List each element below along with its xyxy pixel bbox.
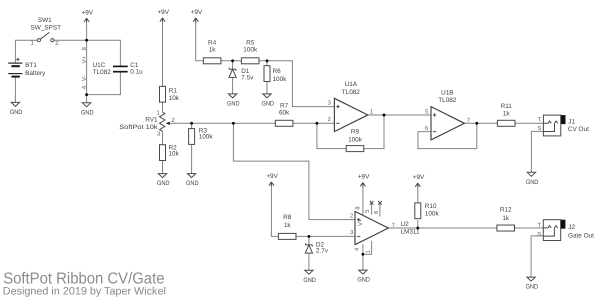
svg-text:GND: GND [303, 277, 316, 284]
svg-text:100k: 100k [273, 76, 288, 83]
svg-text:100k: 100k [199, 134, 214, 141]
svg-text:+9V: +9V [191, 9, 203, 16]
svg-text:R10: R10 [425, 203, 437, 210]
svg-text:J2: J2 [568, 224, 575, 231]
svg-text:R8: R8 [283, 214, 292, 221]
svg-text:+9V: +9V [157, 9, 169, 16]
svg-text:S: S [537, 231, 541, 238]
svg-text:RV1: RV1 [145, 116, 158, 123]
svg-text:CV Out: CV Out [568, 126, 589, 133]
svg-text:R9: R9 [351, 129, 360, 136]
svg-text:J1: J1 [568, 119, 575, 126]
svg-text:V+: V+ [357, 218, 364, 226]
svg-text:TL082: TL082 [93, 69, 112, 76]
svg-text:TL082: TL082 [438, 97, 457, 104]
svg-text:+9V: +9V [82, 9, 94, 16]
svg-text:0.1u: 0.1u [130, 68, 143, 75]
svg-text:GND: GND [157, 180, 170, 187]
svg-text:R11: R11 [501, 103, 513, 110]
svg-text:1k: 1k [502, 215, 510, 222]
svg-text:U1A: U1A [345, 81, 358, 88]
svg-text:10k: 10k [169, 95, 180, 102]
svg-text:T: T [537, 222, 541, 229]
svg-text:GND: GND [10, 109, 23, 116]
svg-text:Battery: Battery [25, 70, 46, 77]
svg-text:60k: 60k [279, 110, 290, 117]
svg-text:Gate Out: Gate Out [568, 232, 594, 239]
svg-text:GND: GND [526, 179, 539, 186]
svg-text:TL082: TL082 [342, 89, 361, 96]
svg-text:1k: 1k [209, 47, 217, 54]
svg-text:GND: GND [186, 180, 199, 187]
svg-text:GND: GND [526, 284, 539, 291]
svg-text:U1B: U1B [441, 90, 453, 97]
svg-text:+9V: +9V [413, 174, 425, 181]
svg-text:Designed in 2019 by Taper Wick: Designed in 2019 by Taper Wickel [3, 286, 166, 298]
svg-text:U2: U2 [401, 221, 410, 228]
svg-text:T: T [538, 117, 542, 124]
svg-text:+9V: +9V [266, 173, 278, 180]
svg-text:R4: R4 [208, 40, 217, 47]
svg-text:R5: R5 [246, 40, 255, 47]
svg-text:+9V: +9V [358, 174, 370, 181]
svg-text:10k: 10k [169, 151, 180, 158]
svg-text:1k: 1k [503, 110, 511, 117]
svg-text:R6: R6 [273, 68, 282, 75]
svg-text:SoftPot 10k: SoftPot 10k [119, 124, 158, 131]
svg-text:1k: 1k [284, 222, 292, 229]
svg-text:2.7v: 2.7v [316, 248, 329, 255]
svg-text:GND: GND [261, 101, 274, 108]
svg-text:100k: 100k [243, 47, 258, 54]
svg-text:LM311: LM311 [401, 229, 421, 236]
svg-text:GND: GND [227, 101, 240, 108]
svg-text:SW1: SW1 [38, 17, 52, 24]
svg-text:7.5v: 7.5v [241, 75, 254, 82]
svg-text:100k: 100k [425, 211, 440, 218]
svg-text:BT1: BT1 [25, 62, 37, 69]
svg-text:V+: V+ [81, 56, 88, 64]
svg-text:GND: GND [357, 277, 370, 284]
svg-text:100k: 100k [348, 136, 363, 143]
svg-text:S: S [537, 125, 541, 132]
svg-text:R12: R12 [500, 206, 512, 213]
svg-text:SW_SPST: SW_SPST [31, 24, 62, 31]
svg-text:GND: GND [81, 109, 94, 116]
svg-text:V-: V- [81, 75, 88, 81]
svg-text:R1: R1 [169, 87, 178, 94]
